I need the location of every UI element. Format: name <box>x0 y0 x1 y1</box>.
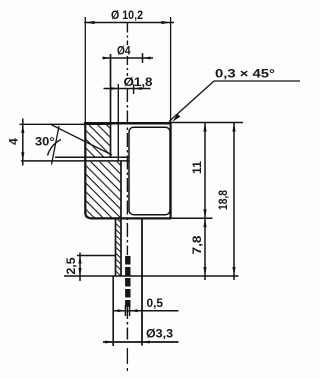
svg-text:Ø1,8: Ø1,8 <box>124 75 153 89</box>
svg-text:7,8: 7,8 <box>190 235 204 254</box>
svg-text:18,8: 18,8 <box>216 190 230 210</box>
svg-text:Ø3,3: Ø3,3 <box>146 327 173 341</box>
svg-text:11: 11 <box>190 161 204 174</box>
svg-text:Ø 10,2: Ø 10,2 <box>111 8 143 22</box>
svg-text:0,3 × 45°: 0,3 × 45° <box>215 67 275 81</box>
svg-text:2,5: 2,5 <box>64 257 78 274</box>
svg-text:0,5: 0,5 <box>147 296 164 310</box>
svg-text:4: 4 <box>7 138 21 145</box>
svg-text:Ø4: Ø4 <box>117 44 131 58</box>
